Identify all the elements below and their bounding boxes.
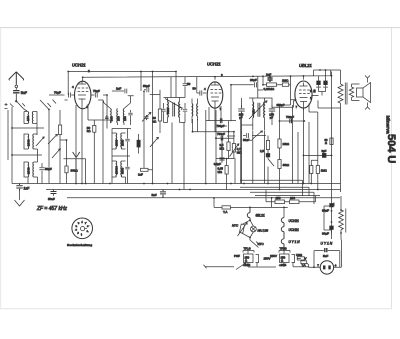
svg-text:7: 7 — [85, 223, 87, 225]
svg-text:504 U: 504 U — [385, 134, 397, 163]
divider resistor 1M b — [316, 166, 319, 174]
IF2 caps — [238, 105, 244, 115]
svg-text:1MΩ: 1MΩ — [321, 169, 327, 173]
tube3 pin wires — [304, 104, 318, 184]
svg-text:100: 100 — [117, 116, 121, 121]
svg-text:10kΩ: 10kΩ — [283, 142, 290, 146]
svg-text:7: 7 — [296, 105, 298, 109]
svg-text:kΩ: kΩ — [153, 120, 158, 124]
heater 6BL21 — [247, 207, 250, 220]
svg-text:T.A: T.A — [223, 210, 227, 214]
NTC resistor — [238, 220, 251, 237]
resistor USG — [297, 257, 304, 260]
svg-text:40kΩ: 40kΩ — [283, 163, 290, 167]
svg-text:20pF: 20pF — [250, 78, 257, 82]
svg-text:2000: 2000 — [115, 139, 119, 146]
grid cap 70pF left — [65, 93, 75, 101]
svg-text:5nF: 5nF — [323, 254, 328, 258]
detector wire 1 + cap 700pF — [206, 120, 236, 122]
voltage selector block 2 — [279, 251, 295, 268]
svg-text:50: 50 — [313, 89, 317, 92]
coupling cap 20pF — [231, 82, 263, 90]
wire bottoms to rail — [28, 175, 42, 184]
capacitor antenna 5nF — [13, 88, 19, 101]
wires osc block — [112, 129, 131, 184]
band switch S2 — [40, 100, 56, 110]
capacitor 56pF — [39, 163, 44, 175]
tube1 pin wires — [76, 104, 106, 184]
osc coil pair 2 — [112, 133, 126, 149]
resistor left 30k — [59, 125, 62, 135]
page edge right — [391, 28, 393, 309]
svg-text:kΩ: kΩ — [87, 129, 92, 133]
socket diagram — [72, 218, 93, 239]
svg-text:7000: 7000 — [166, 107, 170, 114]
svg-text:30μF: 30μF — [322, 232, 329, 236]
svg-text:180: 180 — [252, 109, 256, 114]
filter cap 30uF lower — [330, 222, 334, 233]
resistor 0.05M — [225, 166, 228, 175]
osc coil pair 3 — [112, 161, 126, 177]
resistor 2.5M — [266, 141, 269, 150]
svg-text:pF: pF — [270, 116, 274, 120]
band switch S1 — [10, 101, 25, 109]
main rail 2 — [46, 189, 341, 191]
svg-text:4: 4 — [72, 85, 74, 89]
svg-text:100: 100 — [123, 116, 127, 121]
heater chain right UCH21 — [283, 207, 285, 217]
top rail B+ — [68, 72, 176, 96]
osc cap pair3 — [125, 165, 129, 171]
resistor 0.25M — [267, 83, 277, 86]
osc cap small left — [105, 115, 109, 121]
antenna coil L1 — [24, 112, 37, 124]
capacitor 50nF on rail2 — [51, 190, 57, 196]
resistor 0.5M — [227, 142, 230, 151]
svg-text:UCH21: UCH21 — [207, 62, 221, 67]
IF transformer 2 — [249, 98, 272, 120]
svg-text:PSF: PSF — [234, 254, 240, 258]
IF transformer 1 — [165, 98, 182, 123]
svg-text:8μF: 8μF — [322, 149, 327, 153]
svg-text:Sockelschaltung: Sockelschaltung — [67, 243, 92, 247]
capacitor 1nF to ground — [16, 184, 22, 191]
padder dark — [137, 140, 140, 147]
cap 50pF top — [144, 87, 160, 98]
osc cap mid — [128, 110, 132, 118]
svg-text:150V: 150V — [270, 254, 277, 258]
wire avc 1nF — [112, 89, 134, 96]
svg-text:Minerva: Minerva — [385, 116, 391, 134]
svg-text:U Y 1 N: U Y 1 N — [289, 240, 301, 244]
cap 0.1uF — [219, 138, 224, 162]
svg-text:700pF: 700pF — [286, 115, 294, 119]
svg-text:50pF: 50pF — [143, 84, 150, 88]
page edge left — [0, 28, 2, 309]
filter choke — [339, 196, 346, 240]
svg-text:NTC: NTC — [258, 242, 265, 246]
svg-text:1nF: 1nF — [116, 87, 121, 91]
svg-text:20000: 20000 — [115, 166, 119, 174]
wire from IF2 to detector — [264, 125, 266, 130]
main rail 3 — [67, 197, 340, 199]
antenna — [9, 72, 24, 88]
svg-text:700pF: 700pF — [217, 132, 225, 136]
svg-text:U Y 1 N: U Y 1 N — [321, 242, 333, 246]
svg-text:0,25MΩ: 0,25MΩ — [264, 87, 275, 91]
junction wires detector — [221, 121, 235, 136]
svg-text:2: 2 — [78, 233, 80, 235]
svg-text:200: 200 — [290, 196, 295, 200]
svg-text:5nF: 5nF — [152, 193, 157, 197]
voltage selector block 1 — [243, 251, 259, 268]
rectifier socket UY1N — [316, 261, 341, 274]
svg-text:2000: 2000 — [27, 167, 31, 174]
output transformer — [338, 70, 354, 108]
electrolytic 8uF — [304, 154, 331, 156]
dial lamp — [250, 220, 256, 237]
cap 50nF detector — [243, 133, 252, 140]
svg-text:1nF: 1nF — [138, 173, 143, 177]
svg-text:Ω: Ω — [325, 141, 327, 145]
fuse T.A bottom — [301, 261, 307, 264]
svg-text:T.A: T.A — [302, 263, 306, 267]
heater UCH21 b — [281, 227, 284, 239]
svg-text:56pF: 56pF — [45, 167, 52, 171]
coupling loop — [263, 76, 297, 105]
svg-text:UCH21: UCH21 — [289, 219, 300, 223]
cathode electrolytics — [313, 76, 321, 93]
svg-text:5: 5 — [78, 223, 80, 225]
switch NTC — [250, 240, 259, 248]
svg-text:350pF: 350pF — [277, 103, 285, 107]
svg-text:0,1μF: 0,1μF — [214, 162, 221, 166]
B+ nested rails right — [240, 180, 309, 196]
wire diode feed 350pF — [272, 101, 296, 108]
svg-text:ZF = 457 kHz: ZF = 457 kHz — [36, 206, 68, 212]
wire coil feeds — [24, 109, 50, 184]
resistor TR — [141, 168, 149, 171]
oscillator coil trio 1 — [104, 96, 131, 125]
heater UY1N — [281, 239, 284, 251]
wire — [7, 110, 9, 160]
svg-text:30μF: 30μF — [322, 209, 329, 213]
svg-text:USG: USG — [296, 253, 302, 257]
IF1 caps — [161, 107, 165, 114]
page edge bottom — [0, 308, 392, 310]
antenna coil L3 — [24, 162, 38, 177]
grid2 cap 70pF — [91, 93, 103, 101]
svg-text:MΩ: MΩ — [220, 146, 224, 150]
mains bottom line — [204, 265, 231, 269]
resistor 50k — [93, 125, 96, 132]
volume pot 0.7M — [232, 144, 235, 153]
wire — [12, 149, 42, 162]
svg-text:5000: 5000 — [121, 167, 125, 174]
cap at 185/84 — [183, 80, 188, 89]
svg-text:NR.7,5B: NR.7,5B — [258, 228, 269, 232]
trimmer arrow — [142, 112, 151, 121]
svg-text:250: 250 — [276, 196, 281, 200]
svg-text:50nF: 50nF — [243, 138, 250, 142]
cap 5nF rect bridge — [325, 248, 327, 252]
svg-text:2: 2 — [88, 69, 90, 73]
svg-text:2,5: 2,5 — [260, 149, 264, 153]
svg-text:NTC: NTC — [232, 224, 239, 228]
svg-text:100: 100 — [26, 116, 30, 121]
ground — [15, 191, 25, 207]
svg-text:50nF: 50nF — [48, 197, 55, 201]
power rail verticals — [332, 108, 341, 205]
resistor 20k before IF1 — [158, 109, 161, 121]
svg-text:6: 6 — [81, 222, 83, 224]
svg-text:UCH21: UCH21 — [72, 63, 86, 68]
svg-text:70pF: 70pF — [93, 89, 100, 93]
svg-text:UBL21: UBL21 — [299, 63, 312, 68]
svg-text:50: 50 — [193, 87, 197, 91]
detector wire 3 + cap — [215, 137, 234, 139]
trimmer arrows tuning — [48, 134, 57, 144]
svg-text:UCH21: UCH21 — [289, 228, 300, 232]
resistor 10k — [278, 139, 281, 148]
svg-text:2000: 2000 — [27, 139, 31, 146]
filter cap 30uF upper — [330, 203, 334, 211]
pot arrow AVC — [252, 131, 262, 140]
wire left rail — [11, 107, 13, 184]
IF1 secondary coils — [192, 99, 198, 124]
page fold line top — [0, 27, 400, 29]
svg-text:2000: 2000 — [121, 139, 125, 146]
resistor 40k — [278, 160, 281, 169]
misc vertical wires mid — [198, 119, 280, 190]
main rail 1 — [12, 183, 341, 185]
heater chain: fuse — [222, 206, 231, 209]
cap 700pF feedback — [280, 120, 305, 122]
rail B anode — [83, 70, 341, 77]
divider resistor 1M a — [310, 166, 313, 174]
svg-text:TFLG: TFLG — [244, 247, 251, 251]
svg-text:70pF: 70pF — [54, 91, 61, 95]
decoupling resistor 250 — [275, 200, 285, 204]
capacitor 5nF rail — [160, 190, 166, 198]
svg-text:1: 1 — [81, 234, 83, 236]
antenna coil L2 — [24, 134, 38, 149]
svg-text:+20%: +20% — [279, 263, 287, 267]
switch contact — [268, 159, 274, 184]
svg-text:1nF: 1nF — [24, 187, 30, 191]
svg-text:MΩ: MΩ — [218, 170, 222, 174]
electrolytic 25uF — [267, 152, 269, 154]
svg-text:4: 4 — [204, 87, 206, 91]
svg-text:50: 50 — [187, 82, 191, 86]
resistor 30k body — [66, 159, 68, 166]
capacitor 1nF — [267, 76, 272, 82]
osc cap pair2 — [125, 137, 129, 143]
svg-text:5nF: 5nF — [21, 91, 28, 95]
wire — [12, 112, 44, 136]
speaker — [352, 76, 371, 110]
svg-text:3: 3 — [76, 230, 78, 232]
svg-text:6BL21: 6BL21 — [256, 214, 265, 218]
trimmer arrow L2 — [36, 137, 44, 146]
terminal a — [5, 103, 8, 109]
detector wire 2 — [193, 119, 234, 132]
decoupling resistor 200 — [290, 200, 300, 204]
svg-text:4: 4 — [76, 226, 78, 228]
tube2 wires — [197, 77, 200, 93]
svg-text:1MΩ: 1MΩ — [282, 79, 289, 83]
svg-text:TFLG: TFLG — [280, 247, 287, 251]
resistor 80ohm — [330, 138, 333, 145]
tuning gang capacitor — [64, 152, 86, 184]
resistor 1M — [282, 83, 288, 86]
svg-text:30kΩ: 30kΩ — [71, 169, 79, 173]
